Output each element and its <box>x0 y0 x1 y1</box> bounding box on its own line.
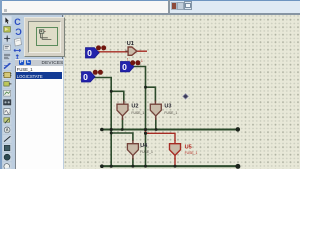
icon tape recorder mode <box>2 98 11 107</box>
preview sheet border (green) <box>36 27 58 46</box>
node rail1 right end <box>235 127 240 132</box>
top white toolbar strip <box>0 0 170 14</box>
wire rail2 <box>101 165 238 167</box>
icon edit orientation box <box>14 38 21 46</box>
svg-text:0: 0 <box>122 62 127 72</box>
small toolbar buttons top right <box>171 2 178 10</box>
svg-text:C: C <box>15 27 22 37</box>
node V3/U5-branch <box>144 132 147 135</box>
red toggle dots flag3 <box>92 70 97 75</box>
left window edge <box>0 0 2 169</box>
icon generator mode <box>2 107 11 116</box>
svg-text:C: C <box>14 17 21 27</box>
logicstate flag 1 <box>85 48 99 58</box>
wire U4 bottom to rail2 <box>131 159 133 166</box>
svg-text:U2: U2 <box>131 104 138 110</box>
fuse U2 <box>117 101 128 121</box>
node rail2 right end <box>235 164 240 169</box>
svg-text:0: 0 <box>87 48 92 58</box>
icon 2D circle mode <box>2 153 11 162</box>
icon component mode <box>2 25 11 34</box>
junction dots <box>100 86 240 169</box>
preview mini schematic <box>36 27 56 44</box>
svg-text:U1: U1 <box>126 41 133 47</box>
cursor origin marker (blue diamond) <box>182 94 188 100</box>
svg-text:FUSE_1: FUSE_1 <box>131 111 144 115</box>
icon 2D box mode <box>2 144 11 153</box>
top-right pale blue area <box>170 1 301 14</box>
wire rail1 <box>101 128 238 130</box>
fuse U3 <box>150 101 161 121</box>
white bar right edge <box>168 0 170 14</box>
fuse U5 (selected, red) <box>169 140 180 159</box>
icon mirror vertical <box>16 55 18 61</box>
wire flag2 right then vertical V3 <box>133 67 145 167</box>
wire branch to U3 <box>145 87 155 101</box>
node rail2/U5 <box>173 165 176 168</box>
icon 2D arc mode (partial at bottom) <box>2 162 11 170</box>
node rail2/U4 <box>131 165 134 168</box>
node rail1 left end <box>100 128 104 132</box>
canvas sunken left edge <box>62 15 64 169</box>
horizontal border under top bars <box>0 13 300 15</box>
svg-text:U4: U4 <box>140 143 148 149</box>
node V2/U4-branch <box>109 132 112 135</box>
wire flag3 right then long vertical V2 <box>94 78 111 167</box>
icon subcircuit mode <box>2 71 11 80</box>
logicstate flag 3 <box>81 72 95 82</box>
red toggle dots flag2 <box>130 60 135 65</box>
svg-text:FUSE_1: FUSE_1 <box>140 150 153 154</box>
node V2/U2-branch <box>109 90 112 93</box>
header title DEVICES <box>42 60 64 65</box>
list item FUSE_1 <box>17 67 57 72</box>
fuse U1 (buffer-shaped, pointing right) <box>125 47 137 55</box>
wire branch to U4 <box>111 133 133 140</box>
wire U1 output dangling (red) <box>136 50 145 52</box>
wire branch to U2 <box>111 91 124 101</box>
fuse U4 <box>127 140 138 159</box>
svg-text:U3: U3 <box>164 104 171 110</box>
logicstate flag 2 <box>120 62 134 72</box>
icon voltage probe mode <box>2 116 11 125</box>
icon device pin mode <box>2 80 11 89</box>
icon junction dot mode <box>2 34 11 43</box>
schematic SVG overlay <box>64 14 301 169</box>
wire red staircase to U5 <box>145 130 175 141</box>
icon graph mode <box>2 89 11 98</box>
wire flag1 to U1 (red) <box>98 51 128 53</box>
top thin blue line <box>0 0 300 1</box>
red toggle dots flag1 <box>96 45 101 50</box>
icon current probe mode <box>2 126 11 135</box>
svg-text:0: 0 <box>83 72 88 82</box>
svg-text:1:: 1: <box>126 58 129 62</box>
icon text script mode <box>2 53 11 62</box>
icon wire label mode <box>2 43 11 52</box>
node rail1/U2 <box>120 128 123 131</box>
node V3/U3-branch <box>144 86 147 89</box>
icon mirror horizontal <box>14 49 21 51</box>
icon selection arrow <box>2 16 11 25</box>
list item LOGICSTATE (selected) <box>16 72 62 79</box>
icon 2D line mode <box>2 135 11 144</box>
svg-text:U5: U5 <box>184 145 191 151</box>
small grip mark in white bar <box>4 9 7 12</box>
wire U3 bottom to rail1 <box>154 119 156 130</box>
wire U5 bottom to rail2 (red) <box>174 159 176 166</box>
node rail2/V3 <box>144 165 147 168</box>
svg-text:FUSE_1: FUSE_1 <box>164 111 177 115</box>
button P <box>19 60 25 65</box>
svg-text:1: 1 <box>140 58 143 63</box>
button L <box>26 60 32 65</box>
wire U2 bottom to rail1 <box>121 119 123 130</box>
svg-text:FUSE_1: FUSE_1 <box>184 151 197 155</box>
node rail2/V2 <box>109 165 112 168</box>
icon bus mode <box>2 62 11 71</box>
node rail1/V2 <box>109 128 112 131</box>
node rail1/U3 <box>154 128 157 131</box>
node rail2 left end <box>100 164 104 168</box>
node rail1/V3 <box>144 128 147 131</box>
